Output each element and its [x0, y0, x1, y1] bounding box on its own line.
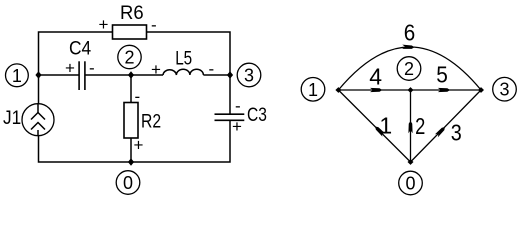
branch 6 wire arc: [338, 47, 481, 90]
branch 4 label: [369, 64, 382, 90]
wire J1 bottom to bottom-left corner to node0 junction: [39, 136, 132, 163]
wire L5 to node3 junction: [203, 74, 230, 76]
polarity - of C3: [235, 97, 241, 116]
svg-text:L5: L5: [175, 48, 192, 69]
polarity - of L5: [209, 60, 215, 79]
branch 6 label: [404, 20, 416, 46]
branch 2 wire: [410, 90, 412, 162]
graph node 2 digit: [404, 59, 414, 79]
svg-text:C4: C4: [69, 39, 92, 60]
junction node 3 left: [227, 71, 233, 79]
branch 5 wire: [411, 89, 482, 91]
svg-text:R2: R2: [141, 111, 161, 132]
polarity + of R6: [99, 15, 109, 34]
label R6: [120, 3, 144, 24]
svg-text:0: 0: [123, 173, 133, 193]
junction node 2: [128, 71, 134, 79]
svg-text:-: -: [135, 87, 141, 106]
wire node0 junction to bottom-right corner up to C3: [131, 121, 230, 162]
branch 1 wire: [338, 90, 410, 162]
branch 2 arrow: [408, 121, 412, 133]
node 1 circle: [6, 64, 29, 87]
svg-text:4: 4: [369, 64, 382, 90]
branch 3 label: [451, 120, 462, 146]
graph node 2 circle: [397, 57, 421, 81]
graph junction node 2: [408, 87, 414, 93]
branch 5 label: [436, 62, 448, 88]
svg-text:3: 3: [451, 120, 462, 146]
svg-text:-: -: [209, 60, 215, 79]
wire node3 junction down to C3 top plate: [229, 75, 231, 114]
wire top-left: from node1 junction up and right to R6: [39, 32, 113, 75]
wire node2 junction to L5: [131, 74, 163, 76]
svg-text:2: 2: [415, 113, 425, 139]
svg-text:+: +: [99, 15, 109, 34]
branch 5 arrow: [438, 88, 450, 92]
graph node 3 circle: [493, 77, 517, 101]
polarity + of R2: [134, 136, 144, 155]
node 1 digit: [12, 66, 22, 86]
svg-text:+: +: [151, 60, 161, 79]
junction node 0 left: [128, 158, 134, 166]
capacitor C4: [79, 61, 85, 90]
svg-text:1: 1: [308, 80, 318, 100]
wire R2 bottom to node0 junction: [130, 138, 132, 162]
resistor R6: [113, 25, 147, 39]
wire from R6 to top-right corner down to node3 junction: [147, 32, 231, 75]
resistor R2: [124, 103, 138, 139]
label L5: [175, 48, 192, 69]
graph node 1 circle: [301, 78, 325, 102]
svg-text:5: 5: [436, 62, 448, 88]
graph node 0 circle: [399, 171, 423, 195]
branch 1 arrow: [374, 125, 386, 137]
current source J1: [22, 104, 54, 136]
svg-text:C3: C3: [247, 105, 267, 126]
label C3: [247, 105, 267, 126]
branch 1 label: [379, 113, 392, 139]
branch 4 arrow: [370, 88, 382, 92]
svg-text:-: -: [89, 59, 95, 78]
svg-text:+: +: [134, 136, 144, 155]
polarity - of R6: [151, 15, 157, 34]
inductor L5: [163, 69, 203, 75]
label C4: [69, 39, 92, 60]
branch 2 label: [415, 113, 425, 139]
polarity - of R2: [135, 87, 141, 106]
svg-text:+: +: [65, 59, 75, 78]
branch 3 wire: [411, 90, 482, 162]
svg-text:2: 2: [404, 59, 414, 79]
node 3 circle: [237, 63, 261, 87]
branch 4 wire: [338, 89, 410, 91]
branch 6 arrow: [402, 45, 414, 50]
wire node2 junction down to R2: [130, 75, 132, 103]
svg-text:J1: J1: [3, 108, 21, 129]
graph junction node 3: [478, 87, 484, 93]
svg-text:+: +: [232, 117, 242, 136]
wire node1 junction down to J1: [38, 75, 40, 104]
graph node 3 digit: [499, 80, 509, 100]
svg-text:1: 1: [379, 113, 392, 139]
svg-text:0: 0: [405, 174, 415, 194]
polarity - of C4: [89, 59, 95, 78]
node 2 circle: [118, 45, 141, 68]
svg-text:3: 3: [244, 66, 254, 86]
branch 3 arrow: [435, 126, 447, 138]
node 2 digit: [124, 48, 134, 68]
polarity + of L5: [151, 60, 161, 79]
graph node 0 digit: [405, 174, 415, 194]
svg-text:1: 1: [12, 66, 22, 86]
svg-text:2: 2: [124, 48, 134, 68]
node 0 circle: [116, 171, 140, 195]
svg-text:3: 3: [499, 80, 509, 100]
capacitor C3: [215, 114, 245, 120]
graph junction node 1: [335, 87, 341, 93]
svg-text:R6: R6: [120, 3, 144, 24]
wire C4 right plate to node2 junction: [85, 74, 131, 76]
node 0 digit: [123, 173, 133, 193]
label R2: [141, 111, 161, 132]
polarity + of C3: [232, 117, 242, 136]
svg-text:-: -: [235, 97, 241, 116]
node 3 digit: [244, 66, 254, 86]
label J1: [3, 108, 21, 129]
junction node 1: [35, 71, 41, 79]
graph node 1 digit: [308, 80, 318, 100]
polarity + of C4: [65, 59, 75, 78]
svg-text:-: -: [151, 15, 157, 34]
svg-text:6: 6: [404, 20, 416, 46]
graph junction node 0: [408, 159, 414, 165]
wire node1 junction to C4 left plate: [39, 74, 80, 76]
